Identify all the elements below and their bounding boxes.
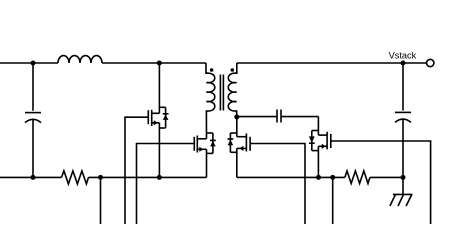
- node C1 bottom junction: [31, 175, 36, 180]
- transistor Q1: [148, 107, 165, 128]
- terminal Vstack: [427, 59, 434, 66]
- resistor R2: [345, 171, 370, 184]
- transformer secondary winding: [228, 63, 237, 117]
- node C3 bottom junction: [401, 175, 406, 180]
- capacitor C1: [25, 113, 41, 178]
- body diode D3 of Q3: [228, 133, 234, 152]
- body diode D4 of Q4 flipped: [309, 131, 315, 151]
- wire C1 top lead: [32, 63, 34, 111]
- Q4 source arrow: [322, 144, 326, 149]
- capacitor C2 blocking: [237, 110, 319, 123]
- secondary phase dot: [231, 68, 235, 72]
- Q3 source arrow: [239, 146, 243, 151]
- wire bottom rail right: [237, 176, 403, 178]
- wire Q1 gate lead: [125, 117, 148, 224]
- primary phase dot: [210, 68, 214, 72]
- wire Q3 gate lead: [250, 144, 305, 225]
- resistor R1: [62, 171, 89, 184]
- ground: [390, 177, 413, 206]
- capacitor C3 output: [395, 112, 411, 177]
- node Vstack junction: [401, 61, 406, 66]
- transistor Q4: [312, 131, 331, 151]
- transistor Q2: [194, 133, 213, 153]
- transistor Q3: [230, 133, 250, 152]
- wire C3 top lead: [402, 63, 404, 111]
- wire Q2 source drop: [206, 149, 208, 177]
- node bottom stub junction: [330, 175, 335, 180]
- node Q1 drain junction: [157, 61, 162, 66]
- body diode D2 of Q2: [210, 133, 216, 153]
- wire bottom rail left: [0, 176, 206, 178]
- transformer primary winding: [206, 63, 215, 139]
- node R1 right junction: [98, 175, 103, 180]
- wire Q1 drain feed: [158, 63, 160, 113]
- wire Q1 source drop: [158, 123, 160, 178]
- wire stub below R1 junction: [100, 177, 102, 224]
- wire top rail right: [237, 62, 427, 64]
- wire stub below junction: [332, 177, 334, 224]
- body diode D1 of Q1: [163, 107, 169, 128]
- wire Q4 drain feed: [317, 117, 319, 136]
- Q1 source arrow: [154, 120, 158, 125]
- inductor L1: [58, 56, 102, 63]
- wire Q2 gate lead: [137, 144, 195, 225]
- svg-text:Vstack: Vstack: [389, 50, 417, 60]
- wire Q4 source drop: [317, 146, 319, 177]
- wire Q3 source drop: [236, 148, 238, 177]
- wire Q3 drain feed: [236, 117, 238, 137]
- node Q1 source junction: [157, 175, 162, 180]
- Q2 source arrow: [199, 147, 203, 152]
- wire top rail left: [0, 62, 206, 64]
- node secondary bottom junction: [234, 115, 239, 120]
- node input junction: [31, 61, 36, 66]
- wire Q4 gate lead: [331, 141, 431, 224]
- transformer core: [220, 75, 223, 111]
- node Q4 source junction: [316, 175, 321, 180]
